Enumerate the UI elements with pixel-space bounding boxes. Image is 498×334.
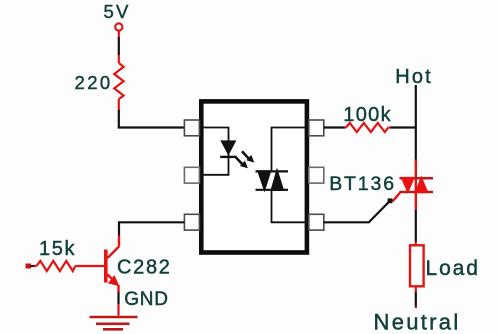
wire R100k to Hot <box>391 126 416 128</box>
svg-text:15k: 15k <box>39 238 76 260</box>
junction node gate <box>388 198 393 203</box>
coupling arrow 2 <box>236 157 248 168</box>
pin 4 <box>309 214 324 230</box>
svg-text:220: 220 <box>75 72 113 93</box>
resistor 100k <box>345 123 391 132</box>
wire collector to pin3 <box>119 222 184 235</box>
internal wire LED bracket <box>203 128 229 175</box>
wire Load to Neutral <box>415 292 417 306</box>
ground symbol <box>90 317 138 329</box>
svg-text:5V: 5V <box>104 1 131 22</box>
wire 5V terminal lead <box>118 31 120 37</box>
resistor 220 <box>114 55 123 110</box>
svg-text:C282: C282 <box>117 257 172 279</box>
triac BT136 <box>390 160 433 211</box>
pin 5 <box>309 167 324 183</box>
load lead top <box>415 242 417 246</box>
pin 2 <box>184 167 199 183</box>
optocoupler U1 body <box>201 101 307 252</box>
wire input terminal stub <box>31 265 35 267</box>
input terminal square <box>26 264 32 269</box>
photo-triac inside U1 <box>256 168 289 193</box>
wire GND lead <box>117 304 119 316</box>
load lead bottom <box>415 286 417 291</box>
resistor 15k <box>34 261 104 271</box>
coupling arrow 1 <box>242 151 254 162</box>
svg-text:Load: Load <box>426 257 480 280</box>
svg-text:Neutral: Neutral <box>374 310 461 334</box>
wire 5V to R220 <box>118 37 120 55</box>
svg-text:BT136: BT136 <box>329 173 396 195</box>
wire R220 to pin1 <box>119 110 185 128</box>
internal wire pin6 to photo-triac <box>272 128 306 172</box>
neutral wire tip <box>415 306 417 309</box>
svg-text:GND: GND <box>124 289 169 310</box>
wire emitter to GND <box>117 292 119 304</box>
pin 6 <box>309 120 324 136</box>
pin 3 <box>184 214 199 230</box>
pin 1 <box>184 120 199 136</box>
wire gate to pin4 <box>324 201 390 223</box>
wire pin6 to R100k <box>324 126 345 128</box>
svg-text:Hot: Hot <box>395 66 433 88</box>
LED D1 inside U1 <box>220 140 236 158</box>
internal wire photo-triac to pin4 <box>272 190 306 223</box>
5V terminal circle <box>115 23 122 30</box>
wire BT136 to Load <box>415 210 417 242</box>
transistor Q1 C282 <box>104 236 120 293</box>
wire Hot vertical <box>415 85 417 160</box>
load resistor box <box>410 245 424 286</box>
